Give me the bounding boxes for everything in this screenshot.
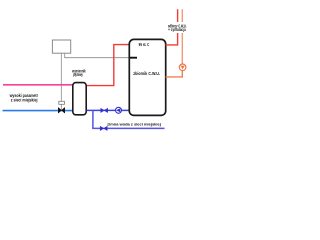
wire: controller to valve actuator signal bbox=[60, 53, 62, 110]
valve V3 (blue, on cold water pipe) bbox=[100, 126, 107, 130]
svg-text:+ cyrkulacja: + cyrkulacja bbox=[168, 27, 186, 32]
svg-text:zbiornik C.W.U.: zbiornik C.W.U. bbox=[133, 71, 160, 76]
red pipe: tank to DHW consumers bbox=[166, 9, 178, 45]
red pipe: exchanger to tank top bbox=[85, 45, 130, 86]
wire: controller to tank sensor signal bbox=[65, 53, 130, 58]
svg-text:zimna woda z sieci miejskiej: zimna woda z sieci miejskiej bbox=[107, 122, 161, 127]
controller box U1 bbox=[52, 40, 70, 53]
valve V1 (black motorized valve on blue return) bbox=[58, 108, 64, 114]
blue return pipe (to city network) bbox=[3, 110, 74, 112]
svg-text:płytowy: płytowy bbox=[73, 72, 83, 77]
valve actuator box bbox=[59, 101, 65, 104]
salmon circulation pipe lower bbox=[166, 71, 183, 77]
blue pipe: exchanger to tank bottom bbox=[87, 109, 130, 111]
salmon circulation pipe upper bbox=[181, 9, 183, 64]
valve V2 (blue, on exchanger-tank pipe) bbox=[101, 108, 108, 112]
svg-text:95 st. C: 95 st. C bbox=[139, 42, 150, 47]
heat exchanger W1 bbox=[73, 83, 86, 115]
svg-text:z sieci miejskiej: z sieci miejskiej bbox=[11, 97, 38, 102]
tank (zbiornik C.W.U.) bbox=[129, 39, 165, 115]
magenta supply pipe (high parameter from city network) bbox=[3, 84, 73, 86]
tank sensor tick bbox=[130, 57, 137, 59]
cold water riser junction bbox=[92, 110, 94, 128]
label background: odbiory bbox=[167, 22, 189, 33]
cold water pipe: zimna woda bbox=[92, 127, 164, 129]
pump P1 (charging pump, triangle left) bbox=[116, 107, 122, 113]
pump P2 (circulation pump, triangle down) bbox=[179, 64, 186, 71]
